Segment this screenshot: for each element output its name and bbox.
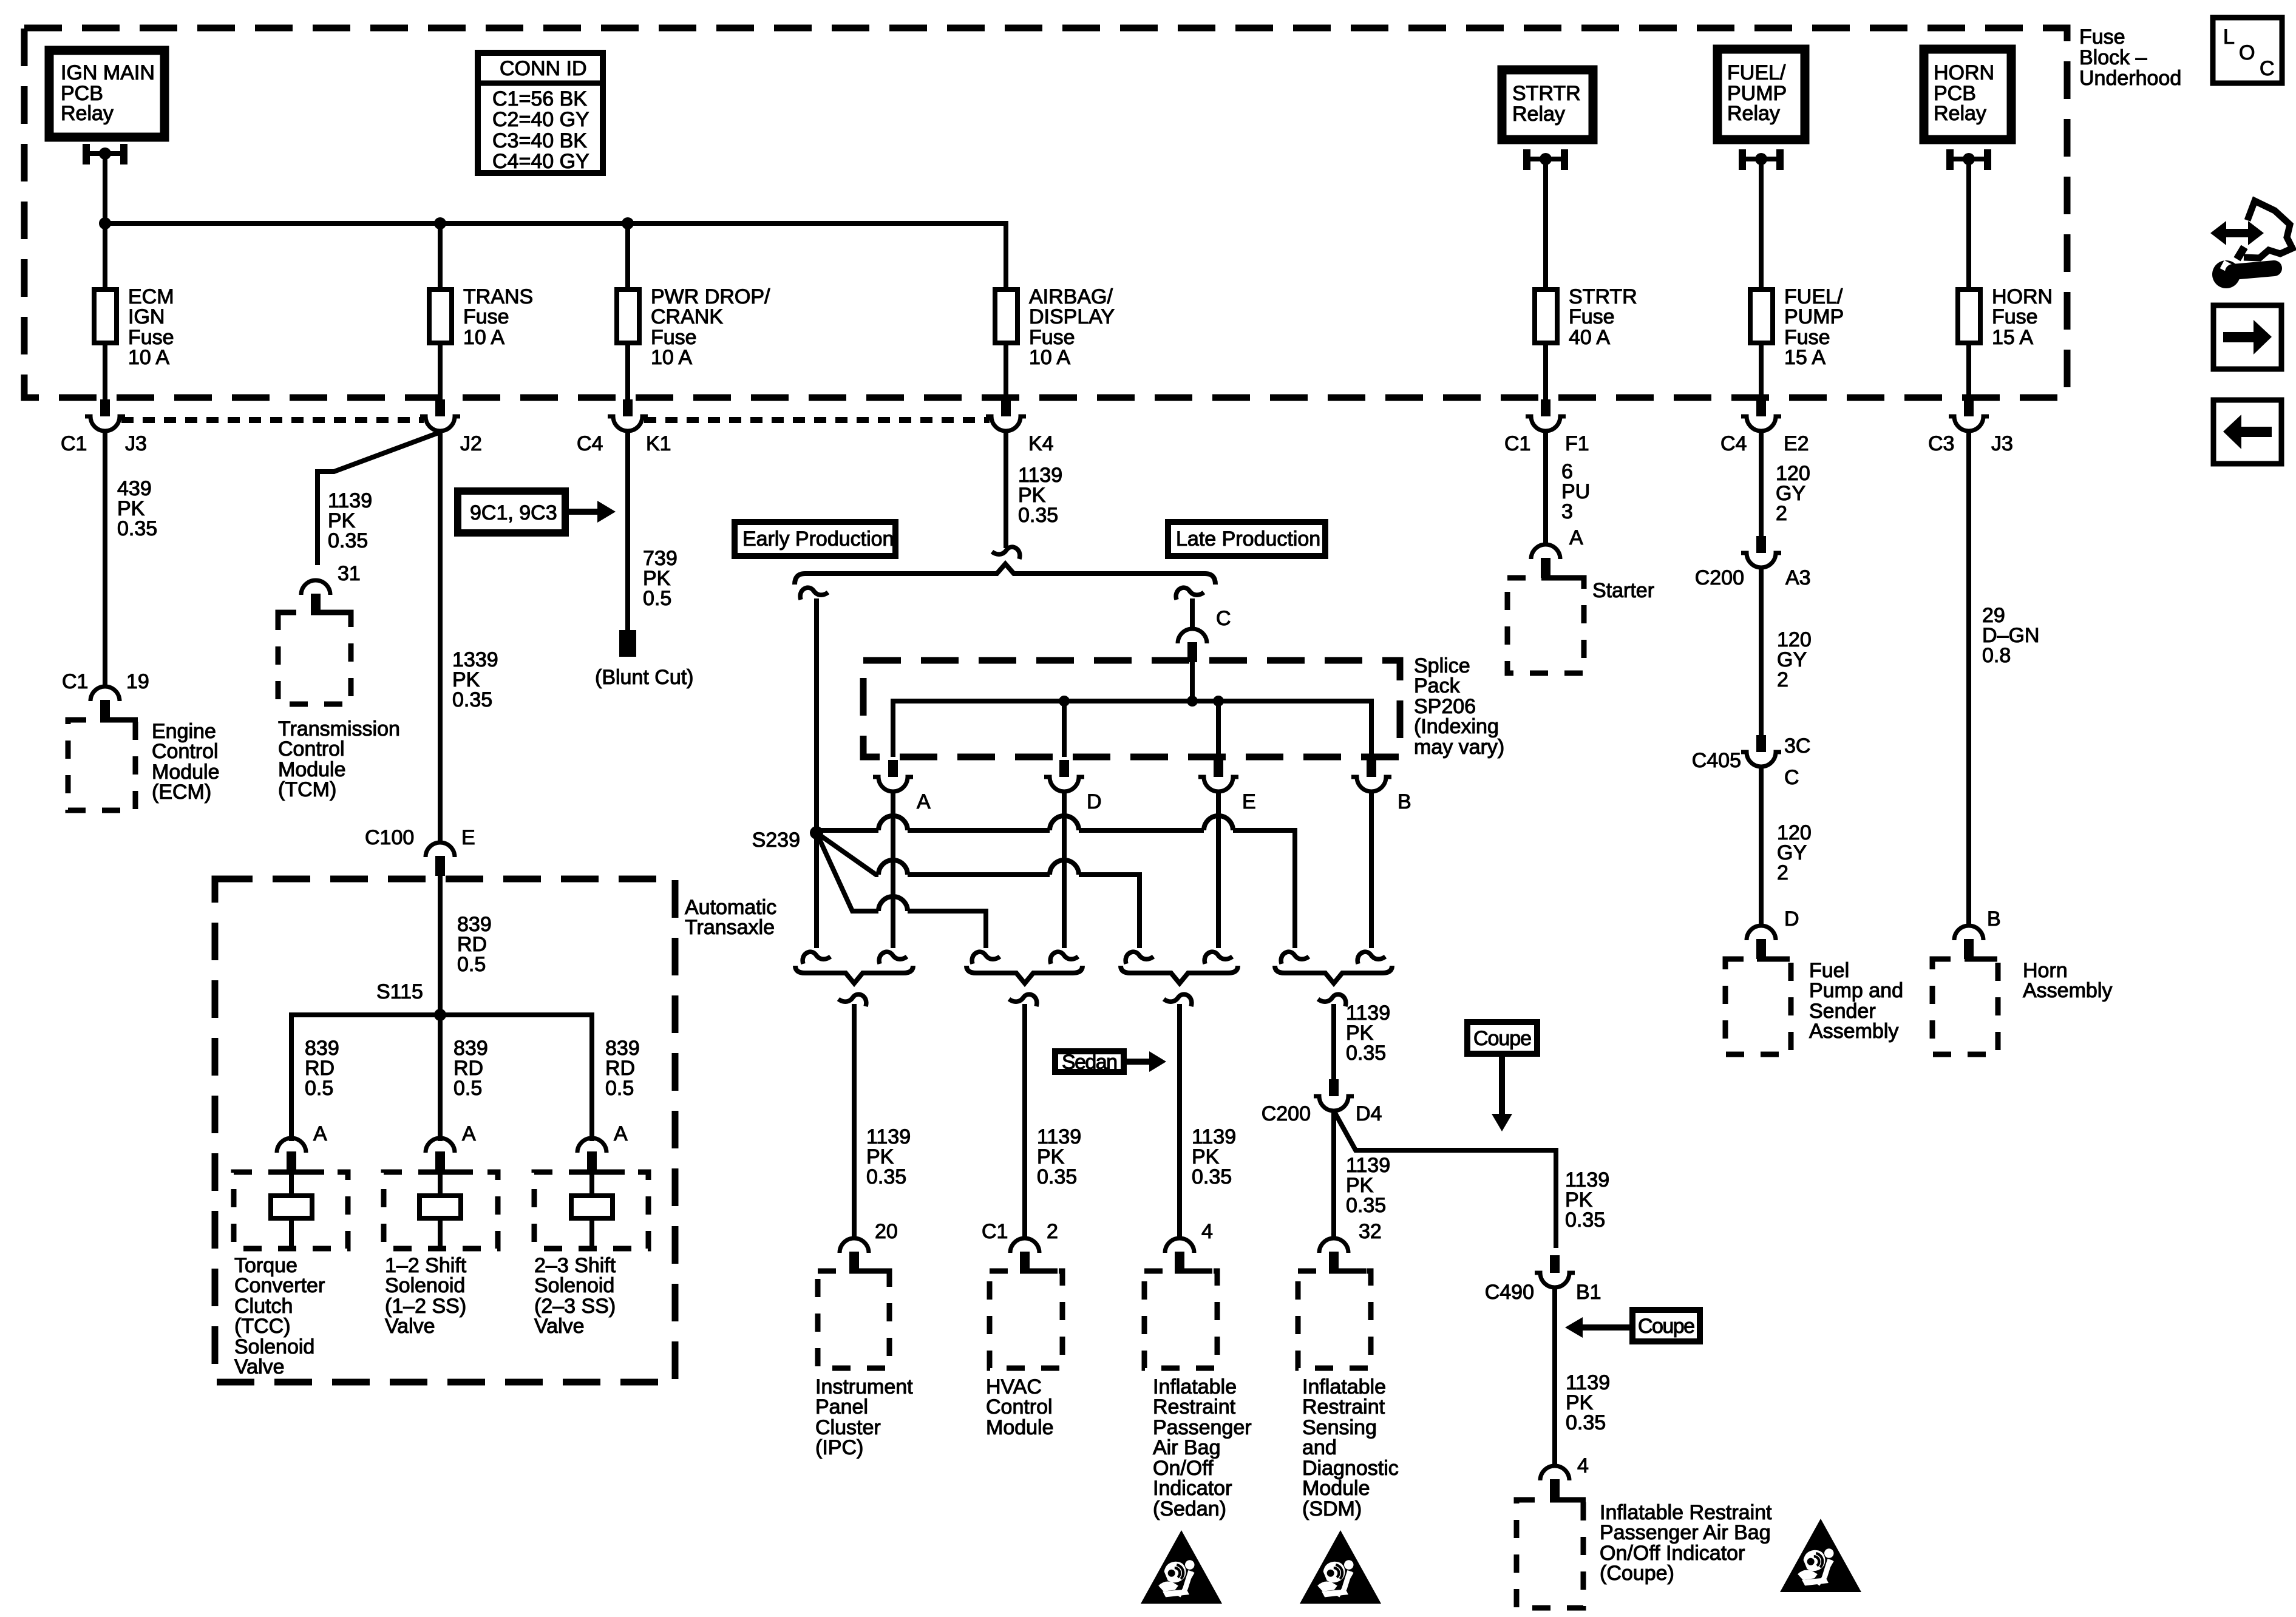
wire FUEL fuse to connector: [1759, 343, 1764, 401]
svg-text:0.35: 0.35: [866, 1165, 906, 1188]
relay pin HORN: [1946, 149, 1991, 170]
production split brace: [795, 564, 1215, 585]
fuse TRANS: [429, 290, 452, 343]
connector C1 J3: [85, 399, 125, 431]
service wrench icon: [2210, 201, 2292, 288]
svg-text:Converter: Converter: [234, 1274, 325, 1297]
TCM dashed box: [278, 612, 351, 704]
svg-text:(TCM): (TCM): [278, 778, 336, 801]
svg-text:IGN: IGN: [128, 305, 165, 328]
svg-text:PUMP: PUMP: [1784, 305, 1844, 328]
svg-text:0.5: 0.5: [305, 1077, 333, 1100]
svg-text:Module: Module: [986, 1416, 1054, 1439]
svg-text:19: 19: [126, 670, 149, 693]
svg-text:D: D: [1784, 907, 1799, 931]
svg-text:0.35: 0.35: [1566, 1411, 1606, 1434]
curl late production wire: [1176, 588, 1204, 600]
svg-text:Fuse: Fuse: [1992, 305, 2038, 328]
wire early production to S239: [814, 598, 819, 833]
wire 1139 PK to C200 D4: [1331, 1004, 1336, 1080]
svg-text:C200: C200: [1695, 566, 1744, 589]
wire S115 branches: [291, 1015, 592, 1141]
2-3 solenoid coil: [589, 1172, 594, 1196]
svg-text:C100: C100: [365, 826, 414, 849]
svg-text:D: D: [1087, 790, 1102, 813]
svg-text:2: 2: [1777, 861, 1788, 884]
S239 row to indicator with hops: [817, 833, 1140, 948]
wire 120 GY A3 to C405: [1759, 568, 1764, 735]
svg-text:31: 31: [338, 562, 361, 585]
svg-text:A: A: [614, 1122, 628, 1145]
svg-text:C1: C1: [62, 670, 88, 693]
Coupe box lower: [1632, 1310, 1700, 1341]
svg-text:Solenoid: Solenoid: [534, 1274, 614, 1297]
curls above IPC brace: [803, 952, 830, 964]
svg-text:Restraint: Restraint: [1153, 1395, 1236, 1419]
left arrow box: [2213, 400, 2281, 464]
connector C200 A3: [1756, 536, 1766, 553]
relay pin FUEL/PUMP: [1739, 149, 1784, 170]
wire IGN MAIN relay to bus: [103, 154, 107, 223]
svg-text:B: B: [1398, 790, 1411, 813]
svg-text:and: and: [1302, 1436, 1337, 1459]
wire D down: [1062, 792, 1067, 948]
node bus TRANS: [434, 217, 446, 229]
svg-text:Relay: Relay: [1727, 102, 1780, 125]
wire 1139 PK to indicator: [1177, 1004, 1182, 1238]
curl below HVAC brace: [1009, 994, 1037, 1006]
svg-text:C3: C3: [1928, 432, 1954, 455]
svg-text:Solenoid: Solenoid: [385, 1274, 465, 1297]
node D on splice bus: [1059, 696, 1070, 707]
svg-text:B1: B1: [1576, 1281, 1601, 1304]
svg-text:(IPC): (IPC): [815, 1436, 863, 1459]
svg-text:(TCC): (TCC): [234, 1315, 291, 1338]
wire C200 D4 to coupe circuit: [1334, 1111, 1556, 1248]
svg-text:10 A: 10 A: [128, 346, 169, 369]
wire bus to ECM IGN fuse: [103, 223, 107, 287]
svg-text:Panel: Panel: [815, 1395, 868, 1419]
svg-text:E: E: [461, 826, 475, 849]
S239 row to SDM with hops: [817, 816, 1295, 948]
indicator coupe dashed box: [1517, 1500, 1583, 1608]
svg-text:(Coupe): (Coupe): [1600, 1562, 1674, 1585]
Late Production box: [1168, 522, 1325, 556]
connector C1 F1: [1526, 399, 1566, 431]
svg-text:Transaxle: Transaxle: [685, 916, 775, 939]
relay FUEL/PUMP box: [1717, 49, 1805, 140]
svg-text:Pack: Pack: [1414, 674, 1461, 697]
wire STRTR relay to fuse: [1543, 159, 1548, 287]
svg-text:0.35: 0.35: [328, 529, 368, 552]
svg-text:J2: J2: [460, 432, 482, 455]
wire AIRBAG fuse to connector: [1004, 343, 1008, 401]
svg-text:C200: C200: [1262, 1102, 1311, 1125]
svg-text:K1: K1: [646, 432, 671, 455]
connector C4 E2: [1741, 399, 1781, 431]
wire FUEL relay to fuse: [1759, 159, 1764, 287]
svg-text:0.35: 0.35: [1018, 504, 1058, 527]
svg-text:10 A: 10 A: [463, 326, 504, 349]
wire 439 PK to ECM: [103, 431, 107, 686]
SDM dashed box: [1298, 1271, 1371, 1368]
svg-text:E: E: [1242, 790, 1256, 813]
arrow Sedan to wire: [1127, 1059, 1149, 1065]
TCC solenoid dashed box: [234, 1172, 348, 1249]
svg-text:C4: C4: [577, 432, 603, 455]
svg-text:Fuse: Fuse: [1569, 305, 1615, 328]
svg-text:(SDM): (SDM): [1302, 1497, 1362, 1520]
svg-text:15 A: 15 A: [1784, 346, 1826, 369]
svg-text:Indicator: Indicator: [1153, 1477, 1232, 1500]
wire 6 PU to starter: [1543, 431, 1548, 546]
automatic transaxle dashed box: [215, 879, 675, 1382]
wire HORN fuse to connector: [1966, 343, 1971, 401]
svg-text:C: C: [1216, 607, 1231, 630]
svg-text:3C: 3C: [1784, 734, 1810, 758]
splice pack dashed box: [863, 660, 1400, 757]
svg-text:HORN: HORN: [1934, 61, 1994, 84]
right arrow box: [2213, 305, 2281, 369]
svg-text:Restraint: Restraint: [1302, 1395, 1385, 1419]
ECM dashed box: [68, 720, 135, 810]
wire PWR DROP fuse to connector: [625, 343, 630, 401]
svg-text:J3: J3: [125, 432, 147, 455]
fuse STRTR: [1535, 290, 1557, 343]
TCC solenoid coil: [289, 1172, 294, 1196]
svg-text:Control: Control: [152, 740, 219, 763]
svg-text:2: 2: [1047, 1220, 1058, 1243]
curl early production wire: [800, 588, 828, 600]
1-2 solenoid coil: [438, 1172, 443, 1196]
wire E down: [1216, 792, 1221, 948]
wire J2 to TCM: [318, 432, 440, 565]
arrow Coupe to wire left: [1583, 1324, 1629, 1331]
svg-text:0.5: 0.5: [457, 953, 486, 976]
svg-text:(Blunt Cut): (Blunt Cut): [595, 666, 694, 689]
svg-text:Sedan: Sedan: [1062, 1051, 1118, 1074]
svg-text:Underhood: Underhood: [2079, 67, 2181, 90]
fuse block underhood dashed box: [24, 28, 2067, 398]
curl below indicator brace: [1164, 994, 1192, 1006]
airbag warning triangle SDM: [1300, 1530, 1381, 1604]
svg-text:20: 20: [875, 1220, 898, 1243]
connector K4: [986, 399, 1026, 431]
svg-text:Fuse: Fuse: [463, 305, 509, 328]
curl below IPC brace: [838, 994, 866, 1006]
svg-text:C2=40 GY: C2=40 GY: [492, 108, 589, 131]
svg-text:A: A: [313, 1122, 327, 1145]
connector A splice: [873, 760, 913, 792]
svg-text:Early Production: Early Production: [742, 527, 894, 551]
svg-text:E2: E2: [1784, 432, 1809, 455]
indicator sedan dashed box: [1144, 1271, 1217, 1368]
1-2 solenoid dashed box: [384, 1172, 498, 1249]
brace HVAC: [966, 966, 1082, 983]
wire B down: [1369, 792, 1374, 948]
svg-text:0.5: 0.5: [453, 1077, 482, 1100]
starter dashed box: [1507, 578, 1584, 673]
svg-text:Valve: Valve: [234, 1355, 285, 1378]
svg-text:Pump and: Pump and: [1809, 979, 1903, 1002]
svg-text:Fuse: Fuse: [2079, 25, 2125, 49]
svg-text:C: C: [1784, 766, 1799, 789]
svg-text:0.35: 0.35: [117, 517, 157, 540]
node bus PWR DROP: [622, 217, 634, 229]
svg-text:0.35: 0.35: [452, 688, 492, 711]
svg-text:(Indexing: (Indexing: [1414, 715, 1499, 738]
fuse PWR DROP/CRANK: [617, 290, 639, 343]
svg-text:2: 2: [1776, 502, 1787, 525]
svg-text:IGN MAIN: IGN MAIN: [61, 61, 155, 84]
svg-text:D4: D4: [1356, 1102, 1382, 1125]
svg-text:J3: J3: [1991, 432, 2013, 455]
svg-text:Starter: Starter: [1592, 579, 1654, 602]
wire late production to C: [1190, 598, 1195, 630]
node bus left: [99, 217, 111, 229]
wire S239 down: [814, 833, 819, 948]
svg-text:L: L: [2223, 25, 2235, 49]
svg-text:Module: Module: [1302, 1477, 1370, 1500]
fuse ECM IGN: [94, 290, 117, 343]
svg-text:4: 4: [1577, 1454, 1589, 1477]
svg-text:32: 32: [1359, 1220, 1382, 1243]
svg-text:Control: Control: [986, 1395, 1053, 1419]
wire A down: [891, 792, 895, 948]
svg-text:Valve: Valve: [385, 1315, 435, 1338]
svg-text:0.35: 0.35: [1346, 1194, 1386, 1217]
svg-text:CONN ID: CONN ID: [500, 57, 587, 80]
svg-text:Air Bag: Air Bag: [1153, 1436, 1221, 1459]
CONN ID box: [475, 53, 606, 173]
svg-text:Coupe: Coupe: [1638, 1315, 1695, 1338]
Early Production box: [735, 522, 895, 556]
svg-text:Relay: Relay: [1512, 103, 1565, 126]
wire 120 GY C to fuel pump: [1759, 767, 1764, 927]
relay HORN PCB box: [1924, 49, 2011, 140]
svg-text:F1: F1: [1565, 432, 1589, 455]
curls above SDM brace: [1281, 952, 1309, 964]
wire TRANS fuse to connector: [438, 343, 443, 401]
relay IGN MAIN PCB box: [49, 50, 165, 137]
blunt cut: [619, 630, 636, 657]
2-3 solenoid dashed box: [534, 1172, 648, 1249]
curls above indicator brace: [1126, 952, 1153, 964]
wire 1139 PK to HVAC: [1022, 1004, 1027, 1238]
wire 1139 PK to IPC: [852, 1004, 857, 1238]
connector J2: [420, 399, 460, 431]
svg-text:0.35: 0.35: [1037, 1165, 1077, 1188]
svg-text:S239: S239: [752, 829, 800, 852]
svg-text:9C1, 9C3: 9C1, 9C3: [470, 501, 557, 524]
brace indicator: [1121, 966, 1238, 983]
wire 29 D-GN to horn: [1966, 431, 1971, 927]
connector dotted line C4 group: [644, 417, 990, 423]
svg-text:C1=56 BK: C1=56 BK: [492, 87, 587, 110]
svg-text:Relay: Relay: [1934, 102, 1986, 125]
svg-text:C1: C1: [1504, 432, 1530, 455]
wire C100 to S115: [438, 874, 443, 1015]
svg-text:C: C: [2260, 57, 2275, 80]
svg-text:CRANK: CRANK: [651, 305, 723, 328]
airbag warning triangle sedan: [1141, 1530, 1222, 1604]
wire HORN relay to fuse: [1966, 159, 1971, 287]
svg-text:15 A: 15 A: [1992, 326, 2033, 349]
curls above HVAC brace: [972, 952, 1000, 964]
svg-text:0.5: 0.5: [643, 587, 671, 610]
wire 1139 PK from K4: [1004, 431, 1008, 548]
svg-text:0.5: 0.5: [605, 1077, 634, 1100]
svg-text:K4: K4: [1028, 432, 1054, 455]
svg-text:(ECM): (ECM): [152, 781, 211, 804]
horn dashed box: [1932, 959, 1998, 1054]
connector D splice: [1044, 760, 1084, 792]
connector B splice: [1351, 760, 1391, 792]
wire bus to TRANS fuse: [438, 223, 443, 287]
Sedan box: [1055, 1051, 1124, 1074]
svg-text:A: A: [462, 1122, 476, 1145]
LOC box: [2213, 18, 2282, 83]
svg-text:Block –: Block –: [2079, 46, 2147, 69]
fuse AIRBAG/DISPLAY: [995, 290, 1017, 343]
svg-text:may vary): may vary): [1414, 736, 1504, 759]
wire STRTR fuse to connector: [1543, 343, 1548, 401]
svg-text:3: 3: [1561, 500, 1573, 523]
svg-text:Assembly: Assembly: [1809, 1020, 1898, 1043]
connector C3 J3: [1949, 399, 1989, 431]
fuel pump dashed box: [1725, 959, 1791, 1054]
connector C405 3C C: [1756, 735, 1766, 752]
svg-text:Late Production: Late Production: [1176, 527, 1320, 551]
svg-text:A: A: [917, 790, 931, 813]
svg-text:4: 4: [1201, 1220, 1213, 1243]
svg-text:(Sedan): (Sedan): [1153, 1497, 1226, 1520]
wire break curl under K4 wire: [992, 547, 1020, 559]
IPC dashed box: [818, 1271, 889, 1368]
svg-text:B: B: [1987, 907, 2001, 931]
svg-text:0.35: 0.35: [1192, 1165, 1232, 1188]
wire ECM fuse to connector: [103, 343, 107, 401]
svg-text:Valve: Valve: [534, 1315, 585, 1338]
svg-text:C405: C405: [1692, 749, 1741, 772]
relay STRTR box: [1502, 70, 1593, 140]
wire C490 to indicator coupe: [1552, 1287, 1557, 1466]
svg-text:C3=40 BK: C3=40 BK: [492, 129, 587, 152]
svg-text:DISPLAY: DISPLAY: [1029, 305, 1115, 328]
svg-text:2: 2: [1777, 668, 1788, 691]
S239 row to HVAC with hops: [817, 833, 986, 948]
svg-text:FUEL/: FUEL/: [1727, 61, 1786, 84]
svg-text:S115: S115: [376, 980, 423, 1003]
wire 120 GY E2 to C200: [1759, 431, 1764, 536]
wire 1339 PK to C100: [438, 431, 443, 843]
svg-text:0.35: 0.35: [1565, 1209, 1605, 1232]
wire 739 PK to blunt cut: [625, 431, 630, 631]
fuse HORN: [1958, 290, 1980, 343]
svg-text:A3: A3: [1785, 566, 1811, 589]
splice pack internal wires: [1190, 660, 1195, 701]
connector C4 K1: [608, 399, 648, 431]
connector C200 D4: [1329, 1079, 1339, 1096]
HVAC dashed box: [990, 1271, 1062, 1368]
svg-text:STRTR: STRTR: [1512, 82, 1581, 105]
bus wire: [105, 223, 1006, 287]
svg-text:Coupe: Coupe: [1473, 1027, 1532, 1050]
svg-text:O: O: [2239, 41, 2255, 64]
relay pin IGN MAIN: [83, 144, 127, 164]
svg-text:Passenger Air Bag: Passenger Air Bag: [1600, 1521, 1771, 1544]
connector E splice: [1198, 760, 1238, 792]
svg-text:40 A: 40 A: [1569, 326, 1610, 349]
Coupe box upper: [1467, 1022, 1537, 1054]
svg-text:Assembly: Assembly: [2023, 979, 2112, 1002]
relay pin STRTR: [1523, 149, 1568, 170]
arrow Coupe down to wire: [1499, 1057, 1505, 1114]
svg-text:C4=40 GY: C4=40 GY: [492, 150, 589, 173]
node C on splice bus: [1187, 696, 1198, 707]
svg-text:C1: C1: [61, 432, 87, 455]
svg-text:C490: C490: [1485, 1281, 1534, 1304]
svg-text:A: A: [1569, 526, 1583, 549]
connector dotted line C1 group: [121, 417, 424, 423]
brace SDM: [1275, 966, 1392, 983]
wire C200 D4 to SDM: [1331, 1111, 1336, 1238]
svg-text:10 A: 10 A: [651, 346, 692, 369]
svg-text:Control: Control: [278, 737, 345, 761]
svg-text:Relay: Relay: [61, 102, 114, 125]
svg-text:0.35: 0.35: [1346, 1042, 1386, 1065]
connector C490 B1: [1550, 1255, 1560, 1273]
wire bus to PWR DROP fuse: [625, 223, 630, 287]
fuse FUEL/PUMP: [1750, 290, 1773, 343]
9C1 9C3 box: [458, 491, 565, 533]
brace IPC: [795, 966, 913, 983]
svg-text:0.8: 0.8: [1982, 644, 2011, 667]
arrow 9C1 to wire: [569, 509, 597, 515]
svg-text:C1: C1: [982, 1220, 1008, 1243]
node E on splice bus: [1213, 696, 1224, 707]
airbag warning triangle coupe: [1780, 1519, 1861, 1592]
svg-text:C4: C4: [1720, 432, 1747, 455]
curl below SDM brace: [1318, 994, 1346, 1006]
svg-text:10 A: 10 A: [1029, 346, 1070, 369]
